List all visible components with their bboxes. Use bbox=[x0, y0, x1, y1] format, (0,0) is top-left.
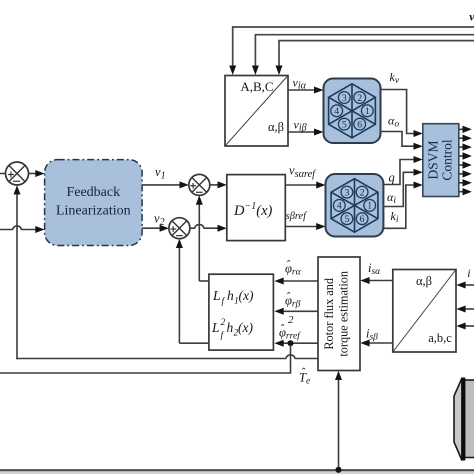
wire v2 bbox=[142, 212, 169, 232]
wire v_i_beta bbox=[288, 118, 324, 136]
wire: reference input into S1 bbox=[0, 173, 6, 175]
svg-text:α,β: α,β bbox=[268, 120, 284, 134]
svg-text:4: 4 bbox=[334, 106, 339, 117]
wire i_s_alpha bbox=[360, 261, 393, 284]
wire: top feedback line 1 (phase A) bbox=[229, 27, 474, 75]
svg-text:6: 6 bbox=[360, 214, 365, 225]
wire: speed input into estimator bottom bbox=[335, 371, 342, 473]
wire: stator current input c bbox=[456, 323, 474, 330]
wire phi_rref^2 into L box with node bbox=[274, 314, 318, 347]
wire i_s_beta bbox=[360, 327, 393, 347]
svg-text:5: 5 bbox=[344, 214, 349, 225]
svg-text:6: 6 bbox=[357, 119, 362, 130]
block: Feedback Linearization bbox=[45, 160, 143, 246]
wire: torque feedback vertical into S1 bbox=[14, 185, 21, 359]
svg-text:2: 2 bbox=[360, 187, 365, 198]
svg-text:torque estimation: torque estimation bbox=[337, 271, 351, 357]
wire v_s_alpha_ref bbox=[285, 164, 325, 189]
wire q to DSVM input 3 bbox=[383, 156, 422, 185]
wire: torque estimate T_e feedback (with hop) bbox=[17, 355, 318, 359]
svg-text:v: v bbox=[469, 10, 474, 24]
svg-text:i: i bbox=[467, 266, 470, 280]
wire: S2 to D-1(x) bbox=[210, 181, 227, 188]
block: D^-1(x) decoupling bbox=[227, 175, 285, 241]
wire phi_r_beta into L box bbox=[274, 289, 318, 315]
svg-text:Rotor flux and: Rotor flux and bbox=[322, 278, 336, 350]
wire: Lf2 h2 feedback vertical into S3 bbox=[176, 239, 183, 344]
summing junction S3 (lower second stage) bbox=[169, 218, 190, 239]
wire: S1 to Feedback Linearization bbox=[29, 170, 45, 177]
wire v1 bbox=[142, 165, 189, 188]
svg-text:sβref: sβref bbox=[286, 211, 308, 222]
block: DSVM Control bbox=[423, 124, 459, 197]
block: voltage sector hexagon (lower) bbox=[326, 174, 384, 237]
block: Lf h1(x) / Lf2 h2(x) bbox=[209, 274, 274, 350]
svg-text:1: 1 bbox=[365, 106, 370, 117]
svg-text:DSVM: DSVM bbox=[425, 140, 440, 179]
svg-text:Linearization: Linearization bbox=[56, 204, 131, 219]
svg-text:1: 1 bbox=[367, 201, 372, 212]
DSVM output arrows (8 gate signals) bbox=[459, 126, 472, 196]
summing junction S1 bbox=[6, 162, 29, 185]
induction motor (cut at right edge) bbox=[454, 378, 474, 461]
wire alpha_i to DSVM input 4 bbox=[383, 169, 422, 207]
svg-text:2: 2 bbox=[288, 314, 294, 326]
svg-text:Feedback: Feedback bbox=[66, 185, 120, 200]
wire: Lf2 h2 output (left) bbox=[179, 342, 209, 344]
summing junction S2 (upper second stage) bbox=[189, 174, 210, 195]
wire: stator current input b bbox=[456, 306, 474, 313]
node on bottom rail bbox=[336, 467, 342, 473]
bottom rail line bbox=[0, 469, 474, 471]
svg-text:5: 5 bbox=[342, 119, 347, 130]
wire: second input into Feedback Linearization (with hop) bbox=[0, 226, 45, 233]
wire k_v to DSVM input 1 bbox=[381, 70, 423, 137]
wire: Lf h1 feedback vertical into S2 bbox=[196, 195, 203, 281]
wire: top feedback line 2 (phase B) bbox=[252, 35, 474, 75]
wire: phi_rref reference from left edge bbox=[0, 345, 291, 373]
block: alpha,beta to a,b,c transform bbox=[393, 270, 456, 353]
wire: Lf h1 output (left) bbox=[199, 280, 209, 282]
wire v_s_beta_ref bbox=[285, 211, 325, 230]
wire: S3 to D-1(x) with hop over S2 feedback bbox=[190, 225, 227, 232]
svg-text:a,b,c: a,b,c bbox=[428, 331, 452, 345]
wire v_i_alpha bbox=[288, 76, 324, 94]
svg-text:4: 4 bbox=[337, 201, 342, 212]
svg-text:2: 2 bbox=[357, 93, 362, 104]
svg-text:q: q bbox=[389, 171, 395, 185]
svg-text:3: 3 bbox=[344, 187, 349, 198]
block: A,B,C to alpha,beta transform bbox=[225, 76, 288, 147]
svg-text:A,B,C: A,B,C bbox=[240, 79, 273, 94]
svg-text:3: 3 bbox=[342, 93, 347, 104]
wire k_i to DSVM input 5 bbox=[383, 182, 422, 229]
svg-text:Control: Control bbox=[440, 139, 455, 181]
wire phi_r_alpha into L box bbox=[274, 257, 318, 284]
wire: stator current input a bbox=[456, 282, 474, 289]
light grey strip below bottom rail bbox=[0, 471, 474, 474]
svg-text:α,β: α,β bbox=[416, 274, 432, 288]
block: Rotor flux and torque estimation bbox=[318, 257, 360, 371]
wire: top feedback line 3 (phase C) bbox=[276, 41, 474, 75]
wire alpha_o to DSVM input 2 bbox=[381, 114, 423, 150]
block: voltage sector hexagon (upper) bbox=[324, 79, 381, 144]
